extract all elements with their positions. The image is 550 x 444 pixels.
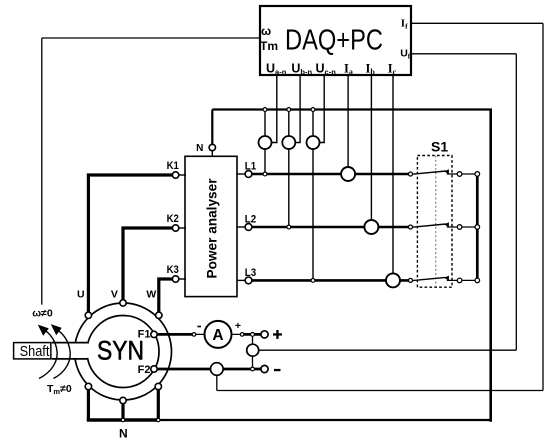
- ammeter A1: [205, 321, 232, 348]
- switch pole 3 left contact: [409, 278, 413, 282]
- wire voltage transducer branch: [252, 334, 254, 369]
- svg-text:ω≠0: ω≠0: [32, 308, 53, 320]
- wire If route: [217, 23, 543, 390]
- wire W to K3: [159, 279, 176, 315]
- svg-text:Shaft: Shaft: [20, 344, 50, 360]
- wire Uf route: [253, 54, 517, 350]
- machine terminal bottom left: [85, 383, 91, 389]
- wire L3 line: [251, 279, 409, 282]
- wire voltage tap a: [264, 110, 266, 175]
- machine terminal W: [156, 312, 162, 318]
- terminal stub K3: [179, 278, 186, 280]
- terminal K1: [172, 172, 178, 178]
- terminal K3: [172, 276, 178, 282]
- switch pole 1 left contact: [409, 172, 413, 176]
- svg-text:K2: K2: [167, 213, 179, 225]
- terminal stub L3: [237, 279, 246, 281]
- shaft bar: [52, 344, 89, 358]
- wire star point verticals: [88, 387, 158, 421]
- shaft rotation arrow outer: [38, 325, 57, 379]
- voltage tap transducer b: [282, 136, 295, 149]
- field plus terminal: [261, 331, 268, 338]
- junction dots N rail: [263, 108, 267, 112]
- svg-text:L2: L2: [245, 213, 256, 225]
- machine terminal N: [120, 397, 126, 403]
- svg-text:DAQ+PC: DAQ+PC: [285, 25, 383, 57]
- connector circles pole 2: [457, 225, 462, 230]
- wire ammeter out to plus terminal: [244, 333, 261, 336]
- machine terminal bottom right: [155, 383, 161, 389]
- wire S1 shorting bus: [476, 174, 479, 280]
- svg-text:A: A: [212, 327, 223, 344]
- machine terminal U: [85, 312, 91, 318]
- wire DAQ pin Ia: [347, 75, 349, 167]
- wire speed/torque signal: [42, 38, 260, 305]
- svg-text:Tm: Tm: [260, 39, 278, 53]
- svg-text:F1: F1: [138, 329, 151, 341]
- wire DAQ pin Ua-n: [270, 75, 277, 143]
- connector circles pole 3: [457, 278, 462, 283]
- current transducer Ib: [364, 220, 378, 234]
- wire DAQ pin Uc-n: [318, 75, 324, 143]
- terminal N analyser: [209, 144, 215, 150]
- S1 dashed enclosure: [417, 156, 452, 288]
- svg-text:K1: K1: [167, 160, 179, 172]
- switch pole 1 blade: [412, 169, 475, 174]
- svg-text:Power analyser: Power analyser: [205, 178, 220, 279]
- junction dot L3 tap: [311, 279, 315, 283]
- junction dot plus line: [251, 333, 255, 337]
- svg-text:Tm≠0: Tm≠0: [47, 383, 72, 396]
- field current transducer: [211, 363, 224, 376]
- svg-text:N: N: [119, 427, 128, 441]
- ammeter polarity labels: [197, 326, 201, 328]
- wire F2 to minus terminal: [156, 368, 261, 371]
- wire U to K1: [88, 175, 175, 315]
- field minus terminal: [261, 365, 268, 372]
- terminal L3: [245, 277, 252, 284]
- switch pole 2 blade: [412, 222, 475, 227]
- wire V to K2: [123, 228, 176, 303]
- shaft rotation arrow inner: [51, 324, 70, 378]
- terminal stub K2: [179, 227, 186, 229]
- svg-text:V: V: [111, 289, 118, 301]
- label plus big: [273, 330, 282, 339]
- wire N rail top: [212, 110, 492, 146]
- wire N bottom bus: [87, 418, 159, 421]
- voltage tap transducer a: [259, 136, 272, 149]
- field voltage transducer: [247, 344, 259, 356]
- S1 gang linkage dashed: [435, 156, 437, 288]
- switch pole 3 blade: [412, 276, 475, 281]
- terminal stub K1: [179, 174, 186, 176]
- machine terminal F2: [151, 366, 157, 372]
- connector circles pole 1: [457, 172, 462, 177]
- current transducer Ia: [341, 167, 355, 181]
- shaft box: [14, 343, 51, 359]
- label minus big: [274, 369, 281, 371]
- machine SYN inner circle: [87, 316, 159, 388]
- svg-text:W: W: [146, 289, 156, 301]
- machine terminal V: [120, 300, 126, 306]
- power analyser box: [185, 156, 237, 296]
- wire ammeter leads: [196, 333, 240, 335]
- terminal K2: [172, 225, 178, 231]
- wire L1 line: [251, 173, 409, 176]
- DAQ+PC box: [260, 6, 411, 75]
- svg-text:N: N: [196, 143, 203, 154]
- switch pole 2 left contact: [409, 225, 413, 229]
- svg-text:ω: ω: [261, 24, 271, 38]
- svg-text:K3: K3: [167, 264, 179, 276]
- terminal stub N: [211, 151, 213, 157]
- wire voltage tap b: [288, 110, 290, 228]
- terminal stub L2: [237, 226, 246, 228]
- wire N riser right: [489, 110, 492, 422]
- svg-text:+: +: [235, 320, 241, 332]
- terminal stub L1: [237, 173, 246, 175]
- svg-text:S1: S1: [431, 139, 448, 155]
- junction dot L1 tap: [263, 172, 267, 176]
- junction dots star bus: [121, 418, 124, 421]
- machine terminal F1: [151, 331, 157, 337]
- current transducer Ic: [386, 273, 400, 287]
- wire voltage tap c: [312, 110, 314, 281]
- wire DAQ pin Ib: [370, 75, 372, 220]
- svg-text:L3: L3: [245, 267, 256, 279]
- terminal L1: [245, 171, 252, 178]
- terminal L2: [245, 224, 252, 231]
- wire L2 line: [251, 226, 409, 229]
- junction dot minus line: [251, 367, 255, 371]
- ammeter contact circles: [192, 333, 196, 337]
- svg-text:F2: F2: [138, 364, 151, 376]
- junction dot L2 tap: [287, 225, 291, 229]
- svg-text:L1: L1: [245, 160, 256, 172]
- wire DAQ pin Ic: [392, 75, 394, 274]
- voltage tap transducer c: [307, 136, 320, 149]
- wire F1 to ammeter: [156, 333, 192, 336]
- machine SYN outer circle: [75, 303, 172, 400]
- svg-text:U: U: [77, 289, 85, 301]
- wire DAQ pin Ub-n: [294, 75, 301, 143]
